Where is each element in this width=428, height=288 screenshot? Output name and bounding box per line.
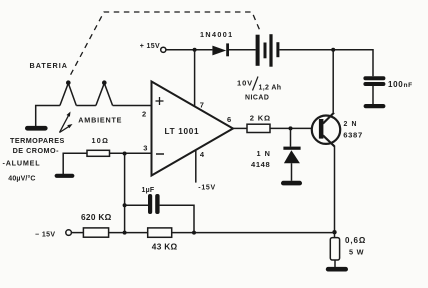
terminal -15V (66, 230, 72, 236)
junction dot at inverting input node (123, 152, 127, 156)
wire rail resistor 43K to emitter node (172, 232, 335, 234)
svg-text:TERMOPARES: TERMOPARES (10, 136, 65, 145)
ground for resistor 10 ohm (55, 174, 75, 178)
label -15V terminal (35, 231, 56, 238)
junction dot at collector rail (331, 48, 335, 52)
pin number 4 (200, 150, 205, 159)
wire tap to capacitor 1uF left plate (125, 204, 148, 206)
capacitor C2 1uF (148, 194, 160, 214)
ground for thermocouples (25, 126, 48, 131)
minus symbol at op-amp inverting input (156, 153, 164, 155)
wire base node to diode 1N4148 cathode (290, 128, 292, 146)
svg-text:4148: 4148 (251, 160, 270, 169)
svg-text:NICAD: NICAD (245, 95, 269, 102)
value label 2N 6387 (343, 121, 363, 140)
svg-text:4: 4 (200, 150, 205, 159)
pin number 3 (143, 144, 147, 153)
junction dot at base node (289, 126, 293, 130)
value label 1N 4148 (251, 149, 271, 169)
svg-text:1,2 Ah: 1,2 Ah (259, 85, 282, 92)
svg-text:10V: 10V (237, 78, 253, 87)
wire from ground to resistor 10 ohm (63, 153, 87, 174)
resistor 0,6 ohm 5W (330, 238, 339, 260)
label TERMOPARES (10, 136, 65, 145)
label BATERIA (30, 61, 68, 70)
arrow 2 pointing to thermocouple ambient junction (60, 124, 73, 133)
svg-text:3: 3 (143, 144, 147, 153)
wire resistor 2K to transistor base (270, 127, 312, 129)
battery B1 NICAD 10V 1.2Ah (256, 34, 280, 66)
dashed leader line from BATERIA label to NICAD battery (71, 12, 261, 75)
wire -15V terminal to resistor 620K (71, 232, 83, 234)
svg-text:100nF: 100nF (388, 80, 413, 89)
resistor 10 ohm (87, 150, 110, 156)
svg-text:43 KΩ: 43 KΩ (152, 242, 178, 252)
wire resistor 0,6 ohm to ground (334, 260, 336, 267)
wire diode 1N4148 anode to ground (291, 163, 293, 181)
value label 1N4001 (200, 30, 234, 39)
wire diode cathode to battery positive (229, 49, 256, 51)
wire inverting node down to feedback rail (124, 154, 126, 233)
wire resistor 620K to feedback node (109, 232, 148, 234)
svg-text:LT 1001: LT 1001 (165, 127, 200, 136)
wire op-amp output pin 6 to resistor 2K (233, 127, 247, 129)
junction dot emitter and feedback rail (332, 230, 336, 234)
thermocouple junction peak 2 (96, 83, 113, 105)
svg-text:1µF: 1µF (142, 187, 155, 194)
junction dot rail right of 43K (192, 231, 196, 235)
wire thermocouple baseline left segment (36, 106, 60, 127)
resistor 2K ohm (247, 124, 270, 132)
wire capacitor 100nF to ground (372, 86, 374, 104)
svg-text:6: 6 (227, 115, 231, 124)
plus symbol at op-amp noninverting input (156, 97, 164, 105)
label +15V (140, 43, 160, 50)
svg-text:620 KΩ: 620 KΩ (81, 212, 112, 222)
svg-text:2 N: 2 N (344, 121, 358, 128)
wire capacitor 1uF right plate to rail (160, 205, 194, 232)
svg-text:7: 7 (200, 101, 204, 110)
wire thermocouple baseline to op-amp pin 2 (113, 105, 152, 107)
svg-text:− 15V: − 15V (35, 231, 56, 238)
junction dot at +15V rail and pin 7 (193, 48, 197, 52)
value label 0,6 ohm (345, 236, 366, 245)
svg-text:2: 2 (142, 109, 146, 118)
svg-text:40µV/°C: 40µV/°C (8, 175, 35, 183)
svg-text:DE CROMO-: DE CROMO- (13, 146, 60, 155)
thermocouple junction peak 1 (60, 83, 76, 105)
pin number 2 (142, 109, 146, 118)
node dot at thermocouple peak 2 (102, 80, 107, 85)
resistor 620K ohm (83, 228, 108, 237)
svg-text:0,6Ω: 0,6Ω (345, 236, 366, 245)
svg-text:-ALUMEL: -ALUMEL (3, 159, 41, 168)
value label 10 ohm (92, 136, 110, 145)
terminal +15V (161, 47, 166, 52)
wire collector drop from top rail (332, 50, 334, 113)
ground for emitter sense resistor (326, 267, 348, 272)
value label 620 K ohm (81, 212, 112, 222)
svg-text:AMBIENTE: AMBIENTE (78, 115, 122, 124)
pin number 6 (227, 115, 231, 124)
label AMBIENTE (78, 115, 122, 124)
wire pin 4 negative supply drop (195, 150, 197, 183)
pin number 7 (200, 101, 204, 110)
arrow 1 pointing to thermocouple ambient junction (60, 112, 71, 133)
svg-text:+ 15V: + 15V (140, 43, 160, 50)
wire battery to capacitor 100nF corner (279, 50, 373, 76)
op-amp U1 LT1001 (152, 82, 234, 176)
label 40 uV/C sensitivity (8, 175, 35, 183)
junction dot feedback node on rail (123, 231, 127, 235)
svg-text:5 W: 5 W (349, 248, 364, 257)
svg-text:BATERIA: BATERIA (30, 61, 68, 70)
value label 43 K ohm (152, 242, 178, 252)
value label 2 K ohm (250, 114, 271, 123)
svg-text:1N4001: 1N4001 (200, 30, 234, 39)
capacitor C1 100nF (363, 76, 385, 86)
ground for diode 1N4148 (281, 181, 302, 186)
value label 1uF (142, 187, 155, 194)
transistor Q1 2N6387 (312, 113, 340, 147)
svg-text:10Ω: 10Ω (92, 136, 110, 145)
wire pin 7 supply drop (194, 50, 196, 107)
label DE CROMO- (13, 146, 60, 155)
label NICAD (245, 95, 269, 102)
value label 100nF (388, 80, 413, 89)
label LT 1001 (165, 127, 200, 136)
label -ALUMEL (3, 159, 41, 168)
svg-text:6387: 6387 (343, 131, 363, 140)
value label 5 W (349, 248, 364, 257)
ground for capacitor 100nF (364, 104, 386, 108)
wire resistor 10 ohm to op-amp pin 3 (110, 152, 152, 154)
svg-text:2 KΩ: 2 KΩ (250, 114, 271, 123)
label -15V at pin 4 (198, 184, 216, 191)
value label 10V / 1,2 Ah (237, 78, 281, 91)
wire thermocouple baseline middle segment (76, 105, 96, 107)
wire emitter drop to sense resistor (334, 146, 336, 238)
diode D1 1N4001 (212, 43, 229, 56)
fraction slash in battery label (253, 77, 259, 91)
diode D2 1N4148 (283, 147, 300, 164)
wire +15V terminal to diode anode (166, 49, 213, 51)
node dot at thermocouple peak 1 (66, 80, 71, 85)
junction dot at capacitor 1uF tap (123, 203, 127, 207)
svg-text:-15V: -15V (198, 184, 216, 191)
resistor 43K ohm (148, 228, 172, 237)
svg-text:1 N: 1 N (257, 149, 271, 158)
